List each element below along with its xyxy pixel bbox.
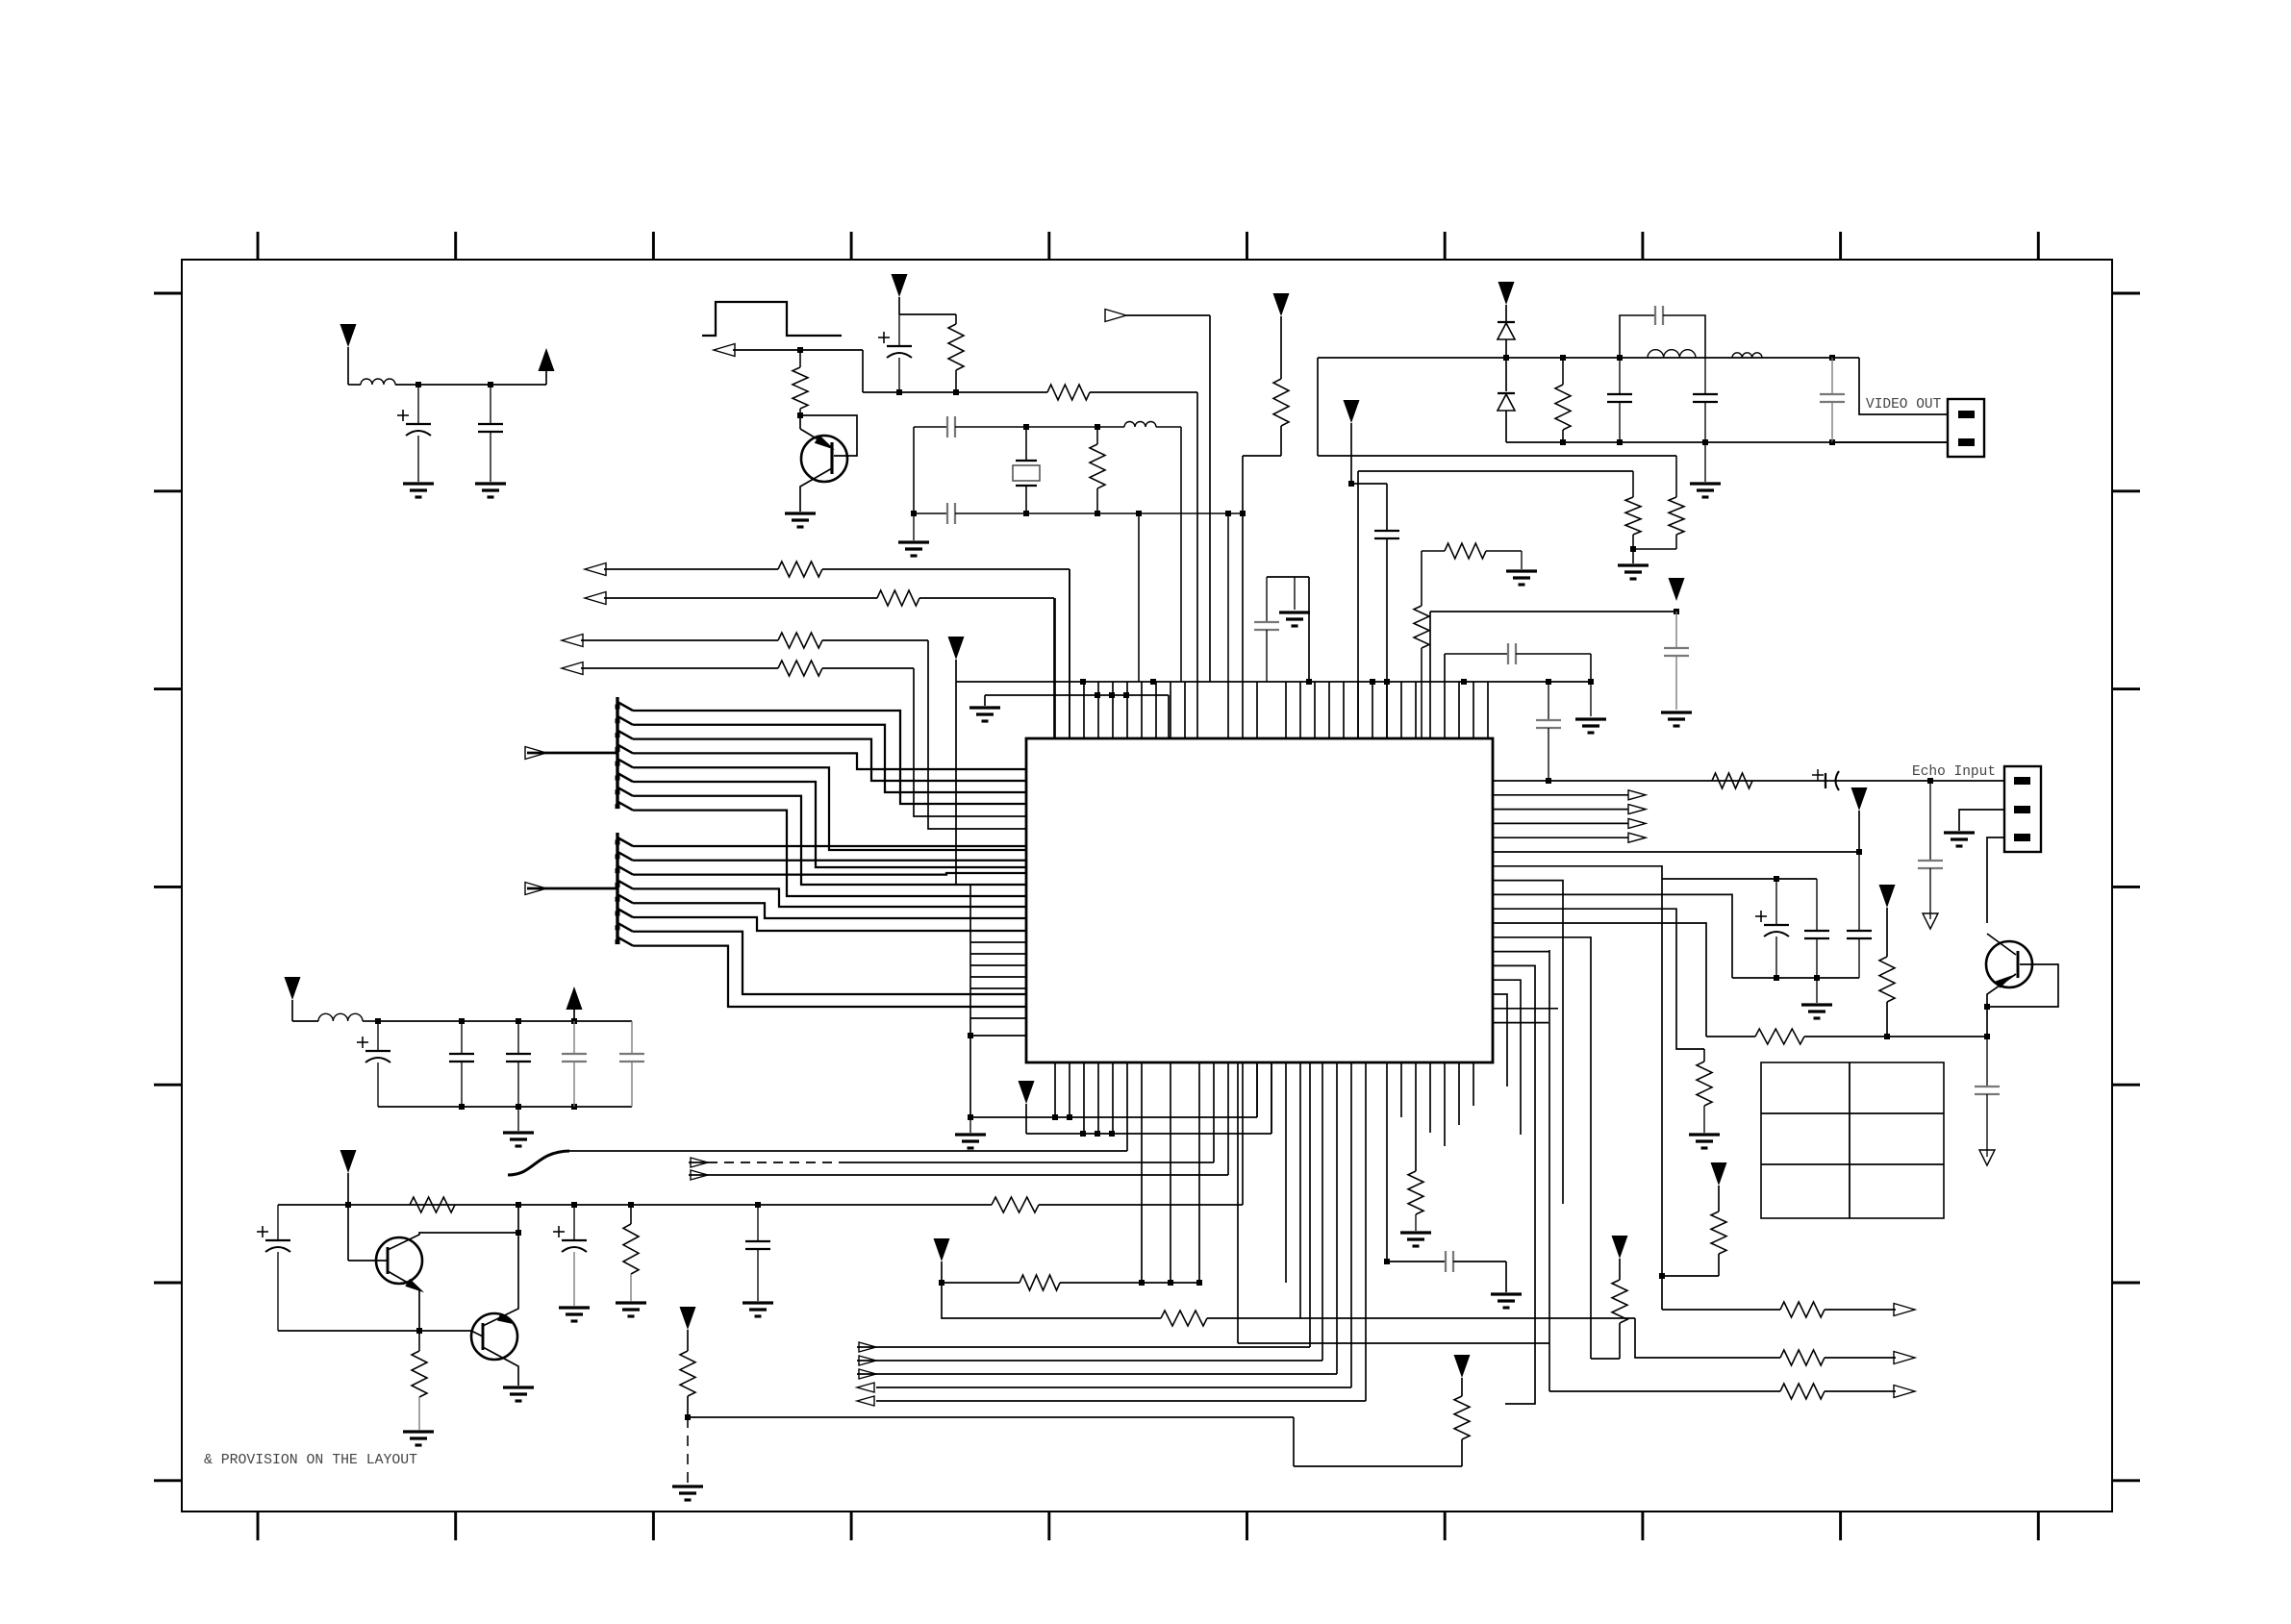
svg-text:Echo Input: Echo Input [1912, 764, 1996, 780]
svg-text:VIDEO OUT: VIDEO OUT [1866, 397, 1942, 412]
svg-text:& PROVISION ON THE LAYOUT: & PROVISION ON THE LAYOUT [204, 1453, 417, 1468]
